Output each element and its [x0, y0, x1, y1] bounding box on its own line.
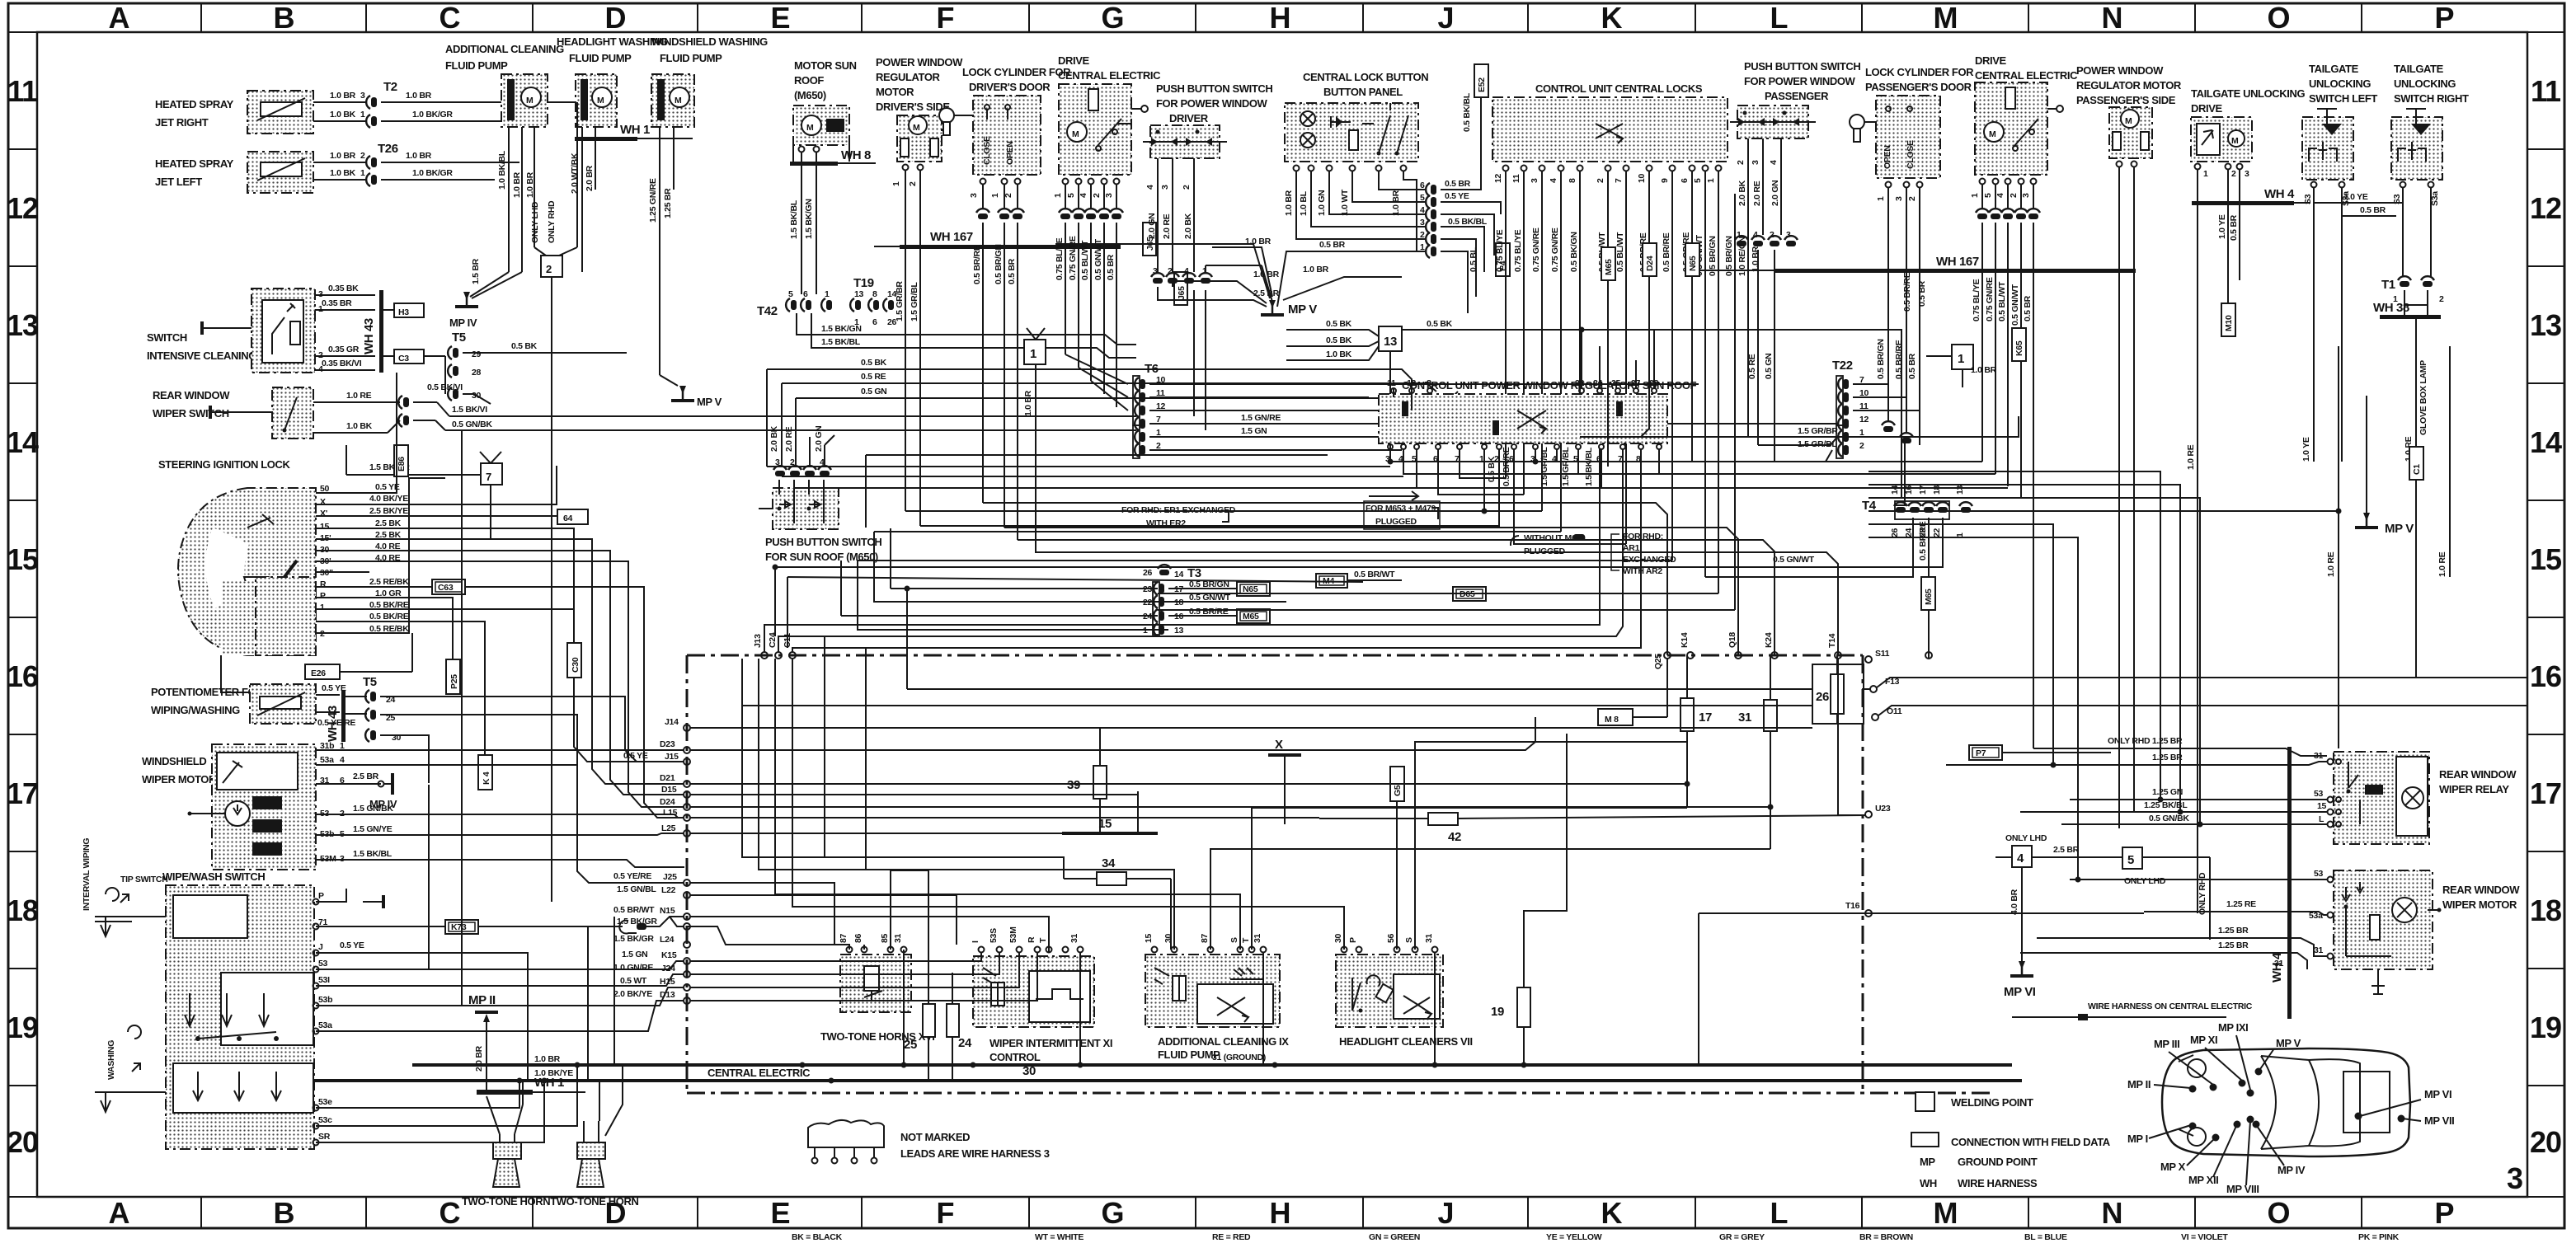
svg-text:1: 1 [1737, 230, 1742, 240]
svg-text:TAILGATE: TAILGATE [2394, 63, 2444, 75]
svg-text:2.5 BK: 2.5 BK [375, 518, 402, 528]
svg-text:OPEN: OPEN [1883, 145, 1892, 169]
wire cucl pin5 [1158, 593, 1718, 594]
svg-text:4: 4 [1549, 178, 1558, 183]
long vertical from 2 chain [551, 452, 552, 902]
svg-text:2: 2 [908, 181, 918, 186]
svg-text:M: M [526, 96, 534, 106]
connector T22 [1758, 188, 1920, 462]
svg-text:K15: K15 [661, 950, 677, 960]
right side loop 6 [1869, 537, 2078, 879]
junction dots [1388, 459, 1394, 465]
connection K4 [478, 755, 492, 790]
relay wires [1946, 736, 2327, 824]
windshield wiper motor [142, 744, 316, 870]
svg-text:20: 20 [7, 1125, 38, 1159]
welding point 2 [534, 102, 577, 452]
welding point 1 right [1902, 272, 1997, 387]
svg-text:0.5 BR: 0.5 BR [2360, 205, 2386, 215]
connection M65 right of T3 [1237, 609, 1270, 623]
svg-text:MP: MP [1920, 1156, 1935, 1168]
svg-text:3: 3 [1153, 266, 1158, 276]
svg-text:1.5 GN/BL: 1.5 GN/BL [617, 884, 656, 894]
svg-text:13: 13 [2530, 308, 2561, 342]
svg-text:PASSENGER'S SIDE: PASSENGER'S SIDE [2076, 94, 2176, 106]
wire cucl pin12 down [1460, 449, 1506, 478]
svg-text:85: 85 [880, 933, 890, 943]
svg-text:MP IV: MP IV [2278, 1164, 2306, 1176]
svg-text:31: 31 [2314, 945, 2324, 955]
svg-text:SWITCH LEFT: SWITCH LEFT [2309, 92, 2377, 105]
wire harness WH 167 left [874, 230, 1121, 249]
wire 1.5 BK/GR jog [687, 926, 849, 945]
control unit central locks [1492, 82, 1728, 162]
wire T5-24 0.5 YE to J15 [380, 697, 684, 762]
ground MP V left [660, 375, 722, 408]
svg-text:6: 6 [872, 317, 877, 327]
wire cucl pin2 [1514, 449, 1626, 544]
wire T5-25 0.5 YE/RE to J25 [380, 715, 684, 883]
cucl vertical tails to T4 region [1580, 437, 1905, 505]
svg-text:2.5 BK/YE: 2.5 BK/YE [369, 506, 408, 516]
svg-text:MP IXI: MP IXI [2218, 1021, 2248, 1034]
wire 53a to D13 [316, 1001, 684, 1031]
two-tone horns XVI [820, 933, 934, 1043]
svg-text:GR = GREY: GR = GREY [1719, 1232, 1765, 1242]
svg-text:M: M [913, 123, 920, 133]
wire D21 run [690, 783, 1687, 785]
svg-text:26: 26 [1143, 568, 1153, 578]
svg-text:4: 4 [1753, 230, 1758, 240]
svg-text:1.5 BK/BL: 1.5 BK/BL [821, 337, 861, 347]
svg-text:2.0 GN: 2.0 GN [1770, 181, 1780, 206]
svg-text:1: 1 [990, 193, 1000, 198]
wire cucl pin4 [874, 531, 1561, 532]
svg-text:3: 3 [1104, 193, 1114, 198]
wire harness WH 1 [575, 123, 693, 141]
svg-text:0.5 GN/WT: 0.5 GN/WT [1773, 555, 1815, 565]
svg-text:1.5 BK/BL: 1.5 BK/BL [789, 199, 799, 239]
wire row extensions left [767, 466, 1390, 467]
wire R 2.5 RE/BK through C63 [316, 586, 432, 588]
wire cu top pins ties [1393, 388, 1394, 397]
svg-text:0.5 BR: 0.5 BR [1319, 240, 1346, 250]
svg-text:SR: SR [318, 1132, 331, 1142]
headlight cleaners VII [1333, 933, 1473, 1048]
svg-text:1.5 GR/BL: 1.5 GR/BL [910, 282, 919, 321]
svg-text:1.0 BR: 1.0 BR [1303, 265, 1329, 274]
control unit central locks wire labels [1495, 227, 1760, 276]
ground MP V mid [1261, 300, 1317, 317]
svg-text:1.25 RE: 1.25 RE [2226, 899, 2256, 909]
wire welding1 to T14 [1036, 458, 1838, 655]
svg-text:MP IV: MP IV [369, 798, 397, 810]
wire 1.5 GR/BR motor1 [905, 449, 1484, 511]
wire P 1.0 GR to P25 [316, 598, 453, 659]
svg-text:14: 14 [1890, 485, 1900, 495]
svg-text:B: B [274, 1, 294, 35]
svg-text:1.0 BK: 1.0 BK [346, 421, 373, 431]
svg-text:2: 2 [1596, 178, 1605, 183]
svg-text:MP V: MP V [2276, 1037, 2301, 1049]
wire cucl pin11 down left [1438, 449, 1524, 495]
lock cylinder for passenger's door [1850, 66, 1974, 445]
welding point 4 [1995, 833, 2122, 961]
svg-text:4: 4 [1995, 193, 2005, 198]
svg-text:0.5 BR: 0.5 BR [2229, 214, 2239, 241]
svg-text:1.0 BK: 1.0 BK [330, 110, 356, 120]
svg-text:0.75 BL/YE: 0.75 BL/YE [1972, 279, 1981, 321]
svg-text:1.25 BR: 1.25 BR [663, 188, 673, 218]
legend connection with field data [1911, 1133, 2111, 1148]
svg-text:P25: P25 [449, 674, 459, 689]
right side loop 2 [1869, 485, 2180, 812]
svg-text:T19: T19 [853, 276, 874, 290]
svg-text:13: 13 [7, 308, 38, 342]
drive CE right bends into mesh [1981, 461, 1983, 462]
svg-text:5: 5 [1983, 193, 1993, 198]
svg-text:2: 2 [1420, 230, 1425, 240]
svg-text:P: P [1348, 937, 1358, 943]
svg-text:POWER WINDOW: POWER WINDOW [876, 56, 963, 68]
wire C24 riser [778, 449, 1623, 652]
svg-text:POTENTIOMETER FOR: POTENTIOMETER FOR [151, 686, 264, 698]
svg-text:M: M [1934, 1, 1958, 35]
svg-text:RE = RED: RE = RED [1212, 1232, 1251, 1242]
svg-text:D: D [605, 1, 626, 35]
svg-text:0.35 BK: 0.35 BK [328, 284, 359, 293]
svg-text:TAILGATE UNLOCKING: TAILGATE UNLOCKING [2191, 87, 2305, 100]
connection M10 [2221, 303, 2235, 336]
car top view [2162, 1048, 2410, 1156]
svg-text:L22: L22 [661, 885, 676, 895]
svg-text:P7: P7 [1976, 748, 1986, 758]
svg-text:2.0 GN: 2.0 GN [1147, 213, 1157, 239]
svg-text:1: 1 [1970, 193, 1980, 198]
svg-text:1.5 GR/BR: 1.5 GR/BR [895, 281, 905, 321]
svg-text:1.0 WT: 1.0 WT [1340, 189, 1350, 216]
legend MP ground point [1920, 1156, 2038, 1168]
svg-text:0.5 RE: 0.5 RE [861, 372, 886, 382]
svg-text:HEATED SPRAY: HEATED SPRAY [155, 98, 234, 110]
svg-text:1.0 RE: 1.0 RE [2186, 444, 2196, 470]
svg-text:WH 43: WH 43 [362, 318, 376, 354]
svg-text:DRIVE: DRIVE [1975, 54, 2006, 67]
svg-text:2: 2 [2009, 193, 2019, 198]
wiper motor terminals [320, 741, 393, 864]
rear window wiper motor [2309, 869, 2520, 994]
connection C63 [432, 579, 465, 594]
wire drive CE right pin3 bend [2033, 510, 2339, 512]
svg-text:M65: M65 [1604, 259, 1614, 275]
svg-text:0.75 GN/RE: 0.75 GN/RE [1550, 227, 1560, 272]
svg-text:J15: J15 [665, 752, 679, 762]
svg-text:STEERING IGNITION LOCK: STEERING IGNITION LOCK [158, 458, 290, 471]
svg-text:C30: C30 [571, 657, 581, 673]
svg-text:TWO-TONE HORNS XVI: TWO-TONE HORNS XVI [820, 1030, 934, 1043]
horns XVI feeds [891, 870, 928, 1004]
svg-text:DRIVER'S DOOR: DRIVER'S DOOR [969, 81, 1051, 93]
svg-text:J14: J14 [665, 717, 679, 727]
svg-text:1.0 BR: 1.0 BR [1391, 190, 1401, 216]
svg-text:0.5 YE: 0.5 YE [623, 751, 648, 761]
wire cu bottom pins into mesh [1535, 449, 1536, 462]
svg-text:ONLY RHD: ONLY RHD [547, 200, 557, 243]
node Q25 [1653, 652, 1671, 669]
svg-text:0.35 BK/VI: 0.35 BK/VI [322, 359, 362, 368]
svg-text:J65: J65 [1177, 286, 1187, 300]
push button driver verticals down [1193, 290, 1195, 416]
node T14 [1827, 633, 1841, 659]
svg-text:17: 17 [2530, 776, 2561, 810]
wire J14 run [690, 727, 1812, 729]
svg-text:2: 2 [546, 263, 552, 275]
right side loop 5 [1869, 524, 2053, 765]
svg-text:9: 9 [1660, 178, 1670, 183]
svg-text:3: 3 [1420, 218, 1425, 227]
svg-text:4: 4 [2017, 851, 2024, 865]
svg-text:8: 8 [872, 289, 877, 299]
wires to ground MP V mid [1158, 265, 1280, 307]
svg-text:17: 17 [1918, 485, 1928, 495]
svg-text:0.5 BL: 0.5 BL [1469, 246, 1478, 272]
svg-text:CENTRAL LOCK BUTTON: CENTRAL LOCK BUTTON [1303, 71, 1428, 83]
svg-text:31 (GROUND): 31 (GROUND) [1212, 1053, 1266, 1062]
svg-text:1.5 BK/GN: 1.5 BK/GN [821, 324, 862, 334]
svg-text:0.5 YE: 0.5 YE [340, 940, 364, 950]
svg-text:WIPER MOTOR: WIPER MOTOR [142, 773, 217, 786]
fuse 34 to pump 30 [1170, 879, 1172, 950]
connection M65 below T4 [1921, 577, 1935, 610]
svg-text:1: 1 [891, 181, 901, 186]
svg-text:4: 4 [318, 364, 323, 374]
ground MP V right [2355, 396, 2414, 536]
svg-text:2: 2 [1736, 160, 1746, 165]
svg-text:2: 2 [1770, 230, 1775, 240]
svg-text:HEADLIGHT CLEANERS VII: HEADLIGHT CLEANERS VII [1339, 1035, 1473, 1048]
svg-text:1: 1 [1876, 196, 1886, 201]
svg-text:7: 7 [486, 471, 491, 483]
svg-text:E: E [770, 1196, 789, 1230]
svg-text:14: 14 [1174, 570, 1184, 579]
wire from fuse26 top [1836, 655, 1838, 664]
svg-text:1.5 BK/GR: 1.5 BK/GR [617, 917, 657, 926]
headlight washing fluid pump [557, 35, 668, 272]
wire 0.5BK right extension to T4 [1814, 330, 1901, 498]
svg-text:4: 4 [1184, 266, 1189, 276]
svg-text:1.0 BR: 1.0 BR [1245, 237, 1272, 246]
svg-text:0.5 YE/RE: 0.5 YE/RE [613, 871, 651, 881]
long verticals right area [2326, 346, 2450, 748]
additional cleaning riser T [1252, 808, 1687, 950]
wipe/wash switch [162, 870, 314, 1149]
svg-text:INTERVAL WIPING: INTERVAL WIPING [82, 838, 92, 911]
svg-text:L24: L24 [660, 935, 675, 945]
svg-text:POWER WINDOW: POWER WINDOW [2076, 64, 2164, 77]
svg-text:2.0 RE: 2.0 RE [1162, 213, 1172, 239]
svg-text:LEADS ARE WIRE HARNESS 3: LEADS ARE WIRE HARNESS 3 [900, 1147, 1050, 1160]
push button switch for sun roof (M650) [759, 480, 881, 563]
svg-text:K: K [1601, 1, 1623, 35]
svg-text:2.0 RE: 2.0 RE [1752, 181, 1762, 206]
svg-text:MP IV: MP IV [449, 317, 477, 329]
wire cucl pin9 [858, 560, 1672, 561]
wire T5-30 [380, 735, 429, 783]
svg-text:L15: L15 [663, 808, 678, 818]
wire J13 riser [764, 449, 1600, 652]
note FOR RHD ER1 [1121, 505, 1236, 528]
svg-text:1.0 RE: 1.0 RE [346, 391, 372, 401]
rear window wiper switch [153, 387, 1136, 439]
wire N15 run [690, 917, 1049, 953]
svg-text:M10: M10 [2224, 315, 2234, 331]
svg-text:PASSENGER'S DOOR: PASSENGER'S DOOR [1865, 81, 1972, 93]
svg-text:D13: D13 [660, 990, 675, 1000]
svg-text:WT = WHITE: WT = WHITE [1035, 1232, 1084, 1242]
svg-text:1.5 BK/GR: 1.5 BK/GR [613, 934, 654, 944]
svg-text:ONLY RHD: ONLY RHD [2198, 872, 2207, 915]
svg-text:2: 2 [1907, 196, 1917, 201]
svg-text:0.75 GN/RE: 0.75 GN/RE [1531, 227, 1541, 272]
svg-text:0.5 BL/WT: 0.5 BL/WT [1080, 240, 1090, 280]
wire 0.5 BR lock cyl to K24 [1018, 540, 1775, 655]
svg-text:1.5 GN: 1.5 GN [622, 950, 647, 959]
wire D24 run [690, 806, 1770, 808]
svg-text:3: 3 [2507, 1161, 2522, 1195]
svg-text:ADDITIONAL CLEANING IX: ADDITIONAL CLEANING IX [1158, 1035, 1289, 1048]
svg-text:CLOSE: CLOSE [1906, 140, 1916, 169]
steering ignition lock [158, 458, 316, 692]
svg-text:M: M [2231, 136, 2239, 146]
svg-text:53: 53 [2314, 789, 2324, 799]
motor sun roof (M650) [793, 59, 857, 162]
svg-text:MP VIII: MP VIII [2226, 1183, 2259, 1195]
svg-text:D23: D23 [660, 739, 675, 749]
control unit power window pins bottom [1385, 444, 1662, 486]
svg-text:1.5 GR/BL: 1.5 GR/BL [1539, 447, 1549, 486]
svg-text:2: 2 [318, 350, 323, 360]
svg-text:J: J [318, 942, 323, 952]
svg-text:B: B [274, 1196, 294, 1230]
svg-text:L25: L25 [661, 823, 676, 833]
bus 30 [313, 1064, 2022, 1081]
svg-text:3: 3 [1894, 196, 1904, 201]
svg-text:25: 25 [904, 1038, 917, 1052]
headlight cleaners 31 to bus [1434, 953, 1436, 1065]
svg-text:2: 2 [1182, 185, 1192, 190]
svg-text:4.0 BR: 4.0 BR [2010, 889, 2019, 915]
wire 53c to bus 31 [316, 1067, 577, 1126]
svg-text:T22: T22 [1832, 359, 1853, 373]
connection 64 [557, 509, 588, 524]
svg-text:0.5 BR: 0.5 BR [1007, 258, 1017, 284]
wire P stub [316, 889, 346, 902]
svg-text:18: 18 [1932, 485, 1942, 495]
extra central verticals [824, 636, 825, 857]
right side loop 1 [1869, 471, 2160, 800]
svg-text:S3: S3 [2303, 194, 2313, 204]
welding point 13 [1286, 319, 1814, 462]
svg-text:ROOF: ROOF [794, 74, 824, 87]
svg-text:D15: D15 [661, 785, 677, 795]
wiper intermittent XI control [971, 926, 1112, 1063]
wire H15 to wiper control [690, 953, 1019, 987]
svg-text:N15: N15 [660, 906, 675, 916]
rear window wiper relay [2334, 752, 2517, 844]
svg-text:WH: WH [1920, 1177, 1937, 1189]
svg-text:31: 31 [1069, 933, 1079, 943]
svg-text:GN = GREEN: GN = GREEN [1369, 1232, 1420, 1242]
svg-text:WINDSHIELD: WINDSHIELD [142, 755, 206, 767]
fuse 25 [904, 1004, 935, 1081]
svg-text:2.0 WT/BK: 2.0 WT/BK [570, 152, 580, 194]
connector T26 [366, 142, 519, 186]
note FOR M653 [1364, 491, 1440, 529]
svg-text:0.5 BR/WT: 0.5 BR/WT [613, 905, 655, 915]
svg-text:11: 11 [1387, 378, 1396, 388]
svg-text:0.35 GR: 0.35 GR [328, 345, 360, 354]
control unit central locks pins [1493, 166, 1722, 184]
color code legend [792, 1232, 2400, 1242]
svg-text:3: 3 [1751, 160, 1760, 165]
svg-text:1: 1 [360, 110, 365, 120]
svg-text:18: 18 [2530, 894, 2561, 927]
wire harness on central electric note [2012, 1001, 2253, 1020]
svg-text:3: 3 [1530, 178, 1539, 183]
svg-text:K: K [1601, 1196, 1623, 1230]
svg-text:LOCK CYLINDER FOR: LOCK CYLINDER FOR [962, 66, 1071, 78]
fuse 34 [1064, 856, 1171, 885]
wire 0.5 GN row [796, 392, 1458, 398]
svg-text:REAR WINDOW: REAR WINDOW [2442, 884, 2520, 896]
wire harness WH 4 vertical [2270, 747, 2292, 1019]
svg-text:X': X' [320, 509, 327, 518]
svg-text:0.5 BK/VI: 0.5 BK/VI [427, 382, 463, 392]
svg-text:5: 5 [788, 289, 793, 299]
svg-text:53a: 53a [320, 755, 334, 765]
svg-text:53: 53 [2314, 869, 2324, 879]
node K14 [1680, 632, 1694, 659]
wire L15 run [690, 817, 1319, 819]
svg-text:0.5 BK/BL: 0.5 BK/BL [1448, 217, 1488, 227]
connector T3 [1143, 565, 1286, 636]
ground MP VI [2004, 961, 2036, 999]
svg-text:0.75 GN/RE: 0.75 GN/RE [1068, 236, 1078, 280]
wire C11 riser [792, 449, 1641, 652]
svg-text:53S: 53S [989, 928, 999, 943]
svg-text:12: 12 [1493, 173, 1503, 183]
svg-text:0.5 GN/BK: 0.5 GN/BK [2149, 814, 2189, 823]
node C24 [768, 632, 782, 659]
svg-text:11: 11 [2531, 74, 2561, 108]
svg-text:1.25 BR: 1.25 BR [2152, 753, 2183, 762]
connection N65 right of T3 [1237, 582, 1270, 596]
svg-text:WINDSHIELD WASHING: WINDSHIELD WASHING [651, 35, 768, 48]
svg-text:53: 53 [318, 959, 328, 969]
svg-text:J: J [1437, 1196, 1453, 1230]
svg-text:Q25: Q25 [1653, 654, 1663, 669]
svg-text:MP V: MP V [697, 396, 722, 408]
svg-text:HEATED SPRAY: HEATED SPRAY [155, 157, 234, 170]
svg-text:1: 1 [318, 304, 323, 314]
svg-text:N: N [2102, 1, 2122, 35]
extra central locks verticals [1607, 280, 1609, 467]
connection M 8 [1598, 659, 1667, 725]
additional cleaning 31 to bus [1262, 953, 1264, 1065]
svg-text:1.0 BK: 1.0 BK [330, 168, 356, 178]
svg-text:0.5 GN/BK: 0.5 GN/BK [452, 420, 492, 429]
tailgate unlocking drive [2186, 87, 2305, 913]
